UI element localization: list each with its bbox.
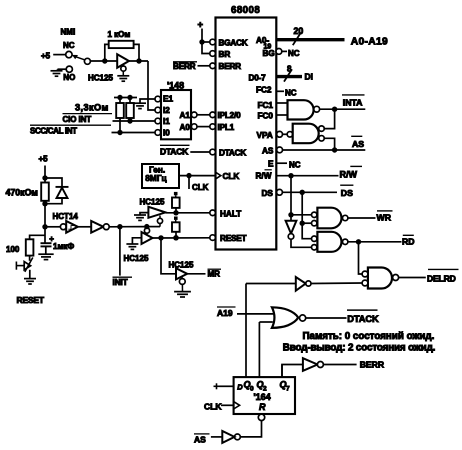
- svg-text:DTACK: DTACK: [347, 314, 379, 324]
- svg-text:FC2: FC2: [256, 86, 272, 95]
- svg-text:DS: DS: [341, 188, 353, 198]
- svg-text:D0-7: D0-7: [249, 73, 267, 82]
- svg-text:FC1: FC1: [258, 101, 274, 110]
- svg-text:'164: '164: [254, 392, 271, 402]
- svg-text:BR: BR: [219, 50, 231, 59]
- svg-text:D: D: [237, 382, 243, 391]
- svg-text:+5: +5: [41, 51, 51, 60]
- svg-text:BG: BG: [263, 49, 275, 58]
- svg-text:I0: I0: [163, 129, 170, 138]
- svg-text:A0-A19: A0-A19: [351, 36, 388, 47]
- svg-text:Память: 0 состояний ожид.: Память: 0 состояний ожид.: [303, 331, 435, 342]
- svg-text:R/W: R/W: [256, 172, 272, 181]
- svg-text:68008: 68008: [231, 5, 260, 16]
- svg-text:RD: RD: [402, 237, 415, 247]
- svg-text:DTACK: DTACK: [160, 147, 189, 157]
- svg-text:E1: E1: [163, 95, 173, 104]
- svg-text:HC125: HC125: [124, 254, 149, 263]
- svg-text:Di: Di: [305, 72, 314, 82]
- svg-text:CLK: CLK: [192, 183, 209, 192]
- svg-text:R: R: [259, 402, 266, 412]
- svg-text:DTACK: DTACK: [219, 148, 246, 157]
- svg-text:I2: I2: [163, 106, 170, 115]
- svg-text:BERR: BERR: [360, 360, 385, 370]
- svg-text:20: 20: [294, 26, 304, 36]
- svg-text:CLK: CLK: [204, 401, 222, 411]
- svg-text:DS: DS: [262, 189, 274, 198]
- svg-text:470кОм: 470кОм: [6, 187, 38, 197]
- svg-text:MR: MR: [208, 270, 221, 279]
- svg-text:E: E: [268, 159, 274, 168]
- svg-text:INIT: INIT: [113, 278, 128, 287]
- svg-text:NO: NO: [63, 73, 75, 82]
- svg-text:NC: NC: [288, 49, 300, 58]
- svg-text:IPL2/0: IPL2/0: [218, 111, 242, 120]
- svg-text:R/W: R/W: [340, 170, 358, 180]
- svg-text:1 кОм: 1 кОм: [108, 30, 131, 39]
- svg-text:HC125: HC125: [140, 197, 165, 206]
- svg-text:IPL1: IPL1: [218, 123, 235, 132]
- svg-text:CIO INT: CIO INT: [63, 115, 92, 124]
- svg-text:3,3кОм: 3,3кОм: [75, 103, 109, 113]
- svg-text:'148: '148: [167, 80, 184, 90]
- svg-text:RESET: RESET: [220, 234, 246, 243]
- svg-text:CLK: CLK: [223, 172, 240, 181]
- svg-text:BERR: BERR: [173, 62, 196, 71]
- svg-text:NC: NC: [285, 89, 297, 98]
- svg-text:BGACK: BGACK: [219, 38, 248, 47]
- svg-text:VPA: VPA: [257, 131, 273, 140]
- svg-text:NC: NC: [63, 41, 75, 50]
- svg-text:SCC/CAL INT: SCC/CAL INT: [30, 126, 77, 135]
- svg-text:AS: AS: [262, 147, 274, 156]
- svg-text:7: 7: [286, 386, 290, 393]
- svg-text:NMI: NMI: [61, 28, 76, 37]
- svg-text:100: 100: [6, 245, 20, 254]
- svg-text:+5: +5: [39, 155, 49, 164]
- svg-text:8МГц: 8МГц: [145, 173, 167, 183]
- svg-text:A1: A1: [180, 111, 191, 120]
- svg-text:INTA: INTA: [343, 98, 363, 108]
- svg-text:I1: I1: [163, 117, 170, 126]
- svg-text:FC0: FC0: [258, 112, 274, 121]
- svg-text:A0: A0: [180, 123, 191, 132]
- svg-text:DELRD: DELRD: [427, 273, 456, 283]
- svg-text:HC125: HC125: [88, 74, 113, 83]
- svg-text:AS: AS: [194, 434, 206, 444]
- svg-text:HALT: HALT: [220, 209, 241, 218]
- svg-text:Ввод-вывод: 2 состояния ожид.: Ввод-вывод: 2 состояния ожид.: [283, 342, 436, 353]
- svg-text:RESET: RESET: [17, 295, 45, 305]
- svg-text:NC: NC: [289, 161, 301, 170]
- svg-text:AS: AS: [352, 139, 364, 149]
- svg-text:HC125: HC125: [169, 261, 194, 270]
- svg-text:8: 8: [287, 64, 292, 73]
- svg-text:A19: A19: [217, 308, 233, 318]
- svg-text:1мкФ: 1мкФ: [53, 242, 74, 251]
- svg-text:WR: WR: [377, 212, 392, 222]
- svg-text:BERR: BERR: [219, 62, 242, 71]
